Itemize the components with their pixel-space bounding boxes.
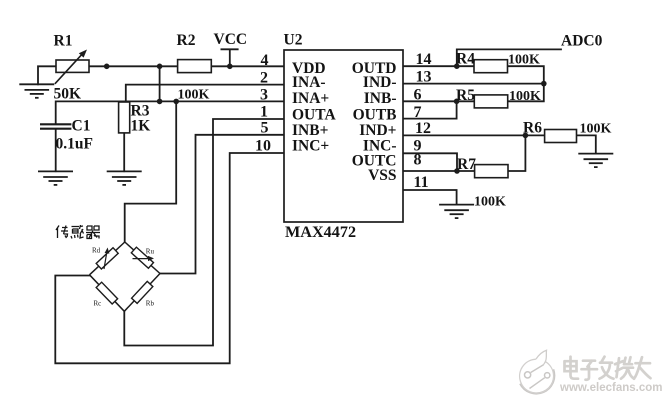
wire vertical R2-left to pin3 line <box>159 66 161 101</box>
power VCC stem and bar <box>221 49 237 66</box>
resistor R5 <box>474 95 507 108</box>
wire R3 bottom lead <box>123 133 125 171</box>
arrow on Rd <box>104 248 109 270</box>
svg-text:INA-: INA- <box>292 74 326 91</box>
svg-text:R2: R2 <box>177 32 196 49</box>
resistor R6 <box>545 130 577 143</box>
svg-text:VCC: VCC <box>214 31 248 48</box>
ground under R1 <box>19 84 54 98</box>
svg-text:1K: 1K <box>131 118 151 135</box>
svg-text:ADC0: ADC0 <box>561 33 603 50</box>
wire pin14 OUTD to R4 <box>403 65 474 67</box>
bridge resistor Rb (bottom-right arm) <box>132 281 153 303</box>
wire R1 left lead to ground <box>38 66 56 84</box>
svg-text:0.1uF: 0.1uF <box>56 136 93 153</box>
svg-text:3: 3 <box>260 86 268 103</box>
svg-text:100K: 100K <box>178 88 210 103</box>
svg-text:MAX4472: MAX4472 <box>285 223 356 241</box>
svg-text:10: 10 <box>255 137 271 154</box>
svg-text:100K: 100K <box>508 53 540 68</box>
bridge resistor Rc (bottom-left arm) <box>96 282 117 304</box>
wire pin1 OUTA to bridge bottom vertex <box>124 119 284 346</box>
wire C1 bottom lead <box>55 130 57 172</box>
capacitor C1 <box>40 124 71 128</box>
node pin13/R4/R5 <box>541 81 547 87</box>
svg-text:100K: 100K <box>509 89 541 104</box>
svg-text:R4: R4 <box>456 51 475 68</box>
svg-text:8: 8 <box>414 152 422 169</box>
watermark logo circle <box>520 350 555 393</box>
wire pin8 OUTC to R7 <box>403 170 475 172</box>
node pin3/bridge branch <box>173 99 179 105</box>
node ADC0/R4 <box>454 63 460 69</box>
wire node pin3 to bridge top vertex <box>125 101 177 242</box>
label sensor 传感器 (hand drawn strokes) <box>56 225 100 239</box>
wire pin7 OUTB up to pin6 node <box>403 101 457 118</box>
svg-text:7: 7 <box>414 104 422 121</box>
svg-text:INB+: INB+ <box>292 122 329 139</box>
svg-text:Rd: Rd <box>92 246 101 254</box>
svg-text:1: 1 <box>260 104 268 121</box>
resistor R7 <box>475 165 508 178</box>
wire pin10 INC+ to bridge left vertex <box>55 153 284 363</box>
wire pin3 INA+ to C1 top <box>56 101 284 123</box>
svg-text:IND-: IND- <box>363 74 397 91</box>
svg-text:R1: R1 <box>54 33 73 50</box>
wire node ADC0 branch <box>457 49 561 66</box>
node VCC tap <box>227 64 233 70</box>
node pin6/pin7/R5 <box>454 99 460 105</box>
svg-text:OUTB: OUTB <box>353 106 397 123</box>
svg-text:Rc: Rc <box>94 300 102 308</box>
node on main wire at R1 wiper <box>104 64 110 70</box>
svg-text:13: 13 <box>416 69 432 86</box>
svg-text:6: 6 <box>414 86 422 103</box>
svg-text:100K: 100K <box>580 122 612 137</box>
watermark text 电子发烧友 (hand drawn strokes) <box>565 357 651 380</box>
wire R4 right to R5 right vertical <box>508 66 544 101</box>
svg-text:INA+: INA+ <box>292 90 329 107</box>
bridge resistor Ru (top-right arm) <box>131 247 153 268</box>
svg-text:VSS: VSS <box>368 167 396 184</box>
svg-text:U2: U2 <box>284 32 303 49</box>
svg-text:INC+: INC+ <box>292 138 329 155</box>
resistor R3 <box>119 102 130 133</box>
svg-text:C1: C1 <box>72 118 91 135</box>
resistor R2 <box>178 60 212 73</box>
svg-text:Ru: Ru <box>146 248 155 256</box>
wire R6 right to ground <box>577 135 596 153</box>
svg-text:R6: R6 <box>523 120 542 137</box>
arrow on Ru <box>133 256 155 261</box>
bridge resistor Rd (top-left arm) <box>96 248 118 269</box>
wire pin6 INB- to R5 <box>403 100 474 102</box>
op-amp U2 MAX4472 body <box>284 50 403 222</box>
wire pin13 IND- <box>403 83 544 85</box>
svg-text:IND+: IND+ <box>359 122 396 139</box>
svg-text:100K: 100K <box>474 195 506 210</box>
R1 wiper arrow <box>55 50 87 84</box>
svg-text:Rb: Rb <box>146 300 155 308</box>
resistor R4 <box>474 60 508 73</box>
node pin12/R6/R7 <box>523 133 529 139</box>
node R2 left <box>157 64 163 70</box>
svg-text:INB-: INB- <box>364 90 397 107</box>
svg-text:R5: R5 <box>456 87 475 104</box>
svg-text:12: 12 <box>415 120 431 137</box>
svg-text:R7: R7 <box>457 156 476 173</box>
svg-text:OUTA: OUTA <box>292 106 336 123</box>
svg-text:5: 5 <box>261 120 269 137</box>
svg-text:2: 2 <box>260 69 268 86</box>
wire pin11 VSS to ground <box>403 190 457 205</box>
sensor bridge diamond wires <box>90 242 161 311</box>
wire R7 right up to pin12 node <box>508 135 525 171</box>
wire pin9 INC- down to pin8 node <box>403 153 457 171</box>
resistor R1 (pot body) <box>56 60 89 72</box>
wire main net R1/R2/VDD pin4 <box>89 65 284 67</box>
svg-text:4: 4 <box>261 52 269 69</box>
svg-text:50K: 50K <box>54 86 82 103</box>
wire pin5 INB+ to bridge right vertex <box>160 135 284 274</box>
svg-text:11: 11 <box>414 174 429 191</box>
ground under R6 <box>578 154 613 168</box>
node pin8/pin9/R7 <box>454 168 460 174</box>
ground under VSS pin11 <box>439 205 474 219</box>
ground under C1 <box>38 171 73 185</box>
junction dots <box>104 63 547 173</box>
wire pin2 INA- to R3 top <box>126 85 284 102</box>
ground under R3 <box>107 171 142 185</box>
wire pin12 IND+ to R6 <box>403 134 545 136</box>
svg-text:www.elecfans.com: www.elecfans.com <box>559 382 662 394</box>
node pin3/R2-branch <box>157 99 163 105</box>
svg-text:14: 14 <box>416 51 432 68</box>
